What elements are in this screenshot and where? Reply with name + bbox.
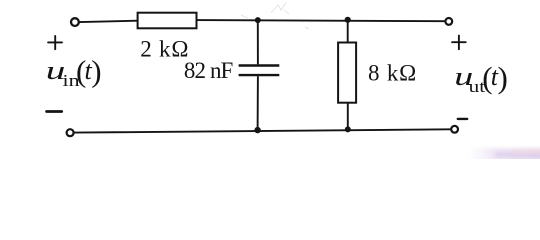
resistor R2 8 kΩ (shunt, vertical): [338, 20, 356, 130]
svg-text:82 nF: 82 nF: [184, 58, 233, 83]
wire: R1 to output terminal: [197, 20, 445, 21]
minus sign input: [47, 110, 62, 113]
junction node at C1 bottom: [254, 127, 260, 133]
svg-text:8 kΩ: 8 kΩ: [368, 61, 417, 86]
output terminal top-right: [445, 18, 452, 25]
svg-text:): ): [91, 54, 101, 89]
junction node at R2 top: [345, 17, 351, 23]
wire: bottom plate to bottom rail: [257, 76, 259, 130]
input terminal bottom-left: [67, 129, 74, 136]
input terminal top-left: [71, 18, 79, 26]
wire: top rail: [74, 20, 450, 133]
plus sign output: [452, 36, 466, 50]
capacitor bottom plate: [239, 74, 280, 76]
capacitor C1 82 nF: [239, 20, 280, 130]
wire: junction to top plate: [257, 20, 259, 64]
output terminal bottom-right: [451, 126, 458, 133]
svg-text:2 kΩ: 2 kΩ: [140, 37, 189, 62]
junction node at R2 bottom: [345, 126, 351, 132]
faint pencil scratches top middle: [241, 3, 309, 29]
minus sign output: [458, 118, 467, 120]
wire: terminal to R1: [80, 21, 138, 22]
label u_ut(t): [454, 60, 508, 96]
plus sign input: [48, 36, 62, 49]
junction node at C1 top: [255, 17, 261, 23]
svg-text:): ): [498, 60, 508, 95]
wire: R2 to bottom rail: [347, 103, 349, 130]
label u_in(t): [46, 54, 102, 90]
wire: bottom rail: [74, 129, 450, 132]
resistor R1 2 kΩ (series, horizontal): [138, 13, 197, 29]
capacitor top plate: [239, 64, 280, 66]
wire: top junction to R2: [347, 20, 349, 43]
